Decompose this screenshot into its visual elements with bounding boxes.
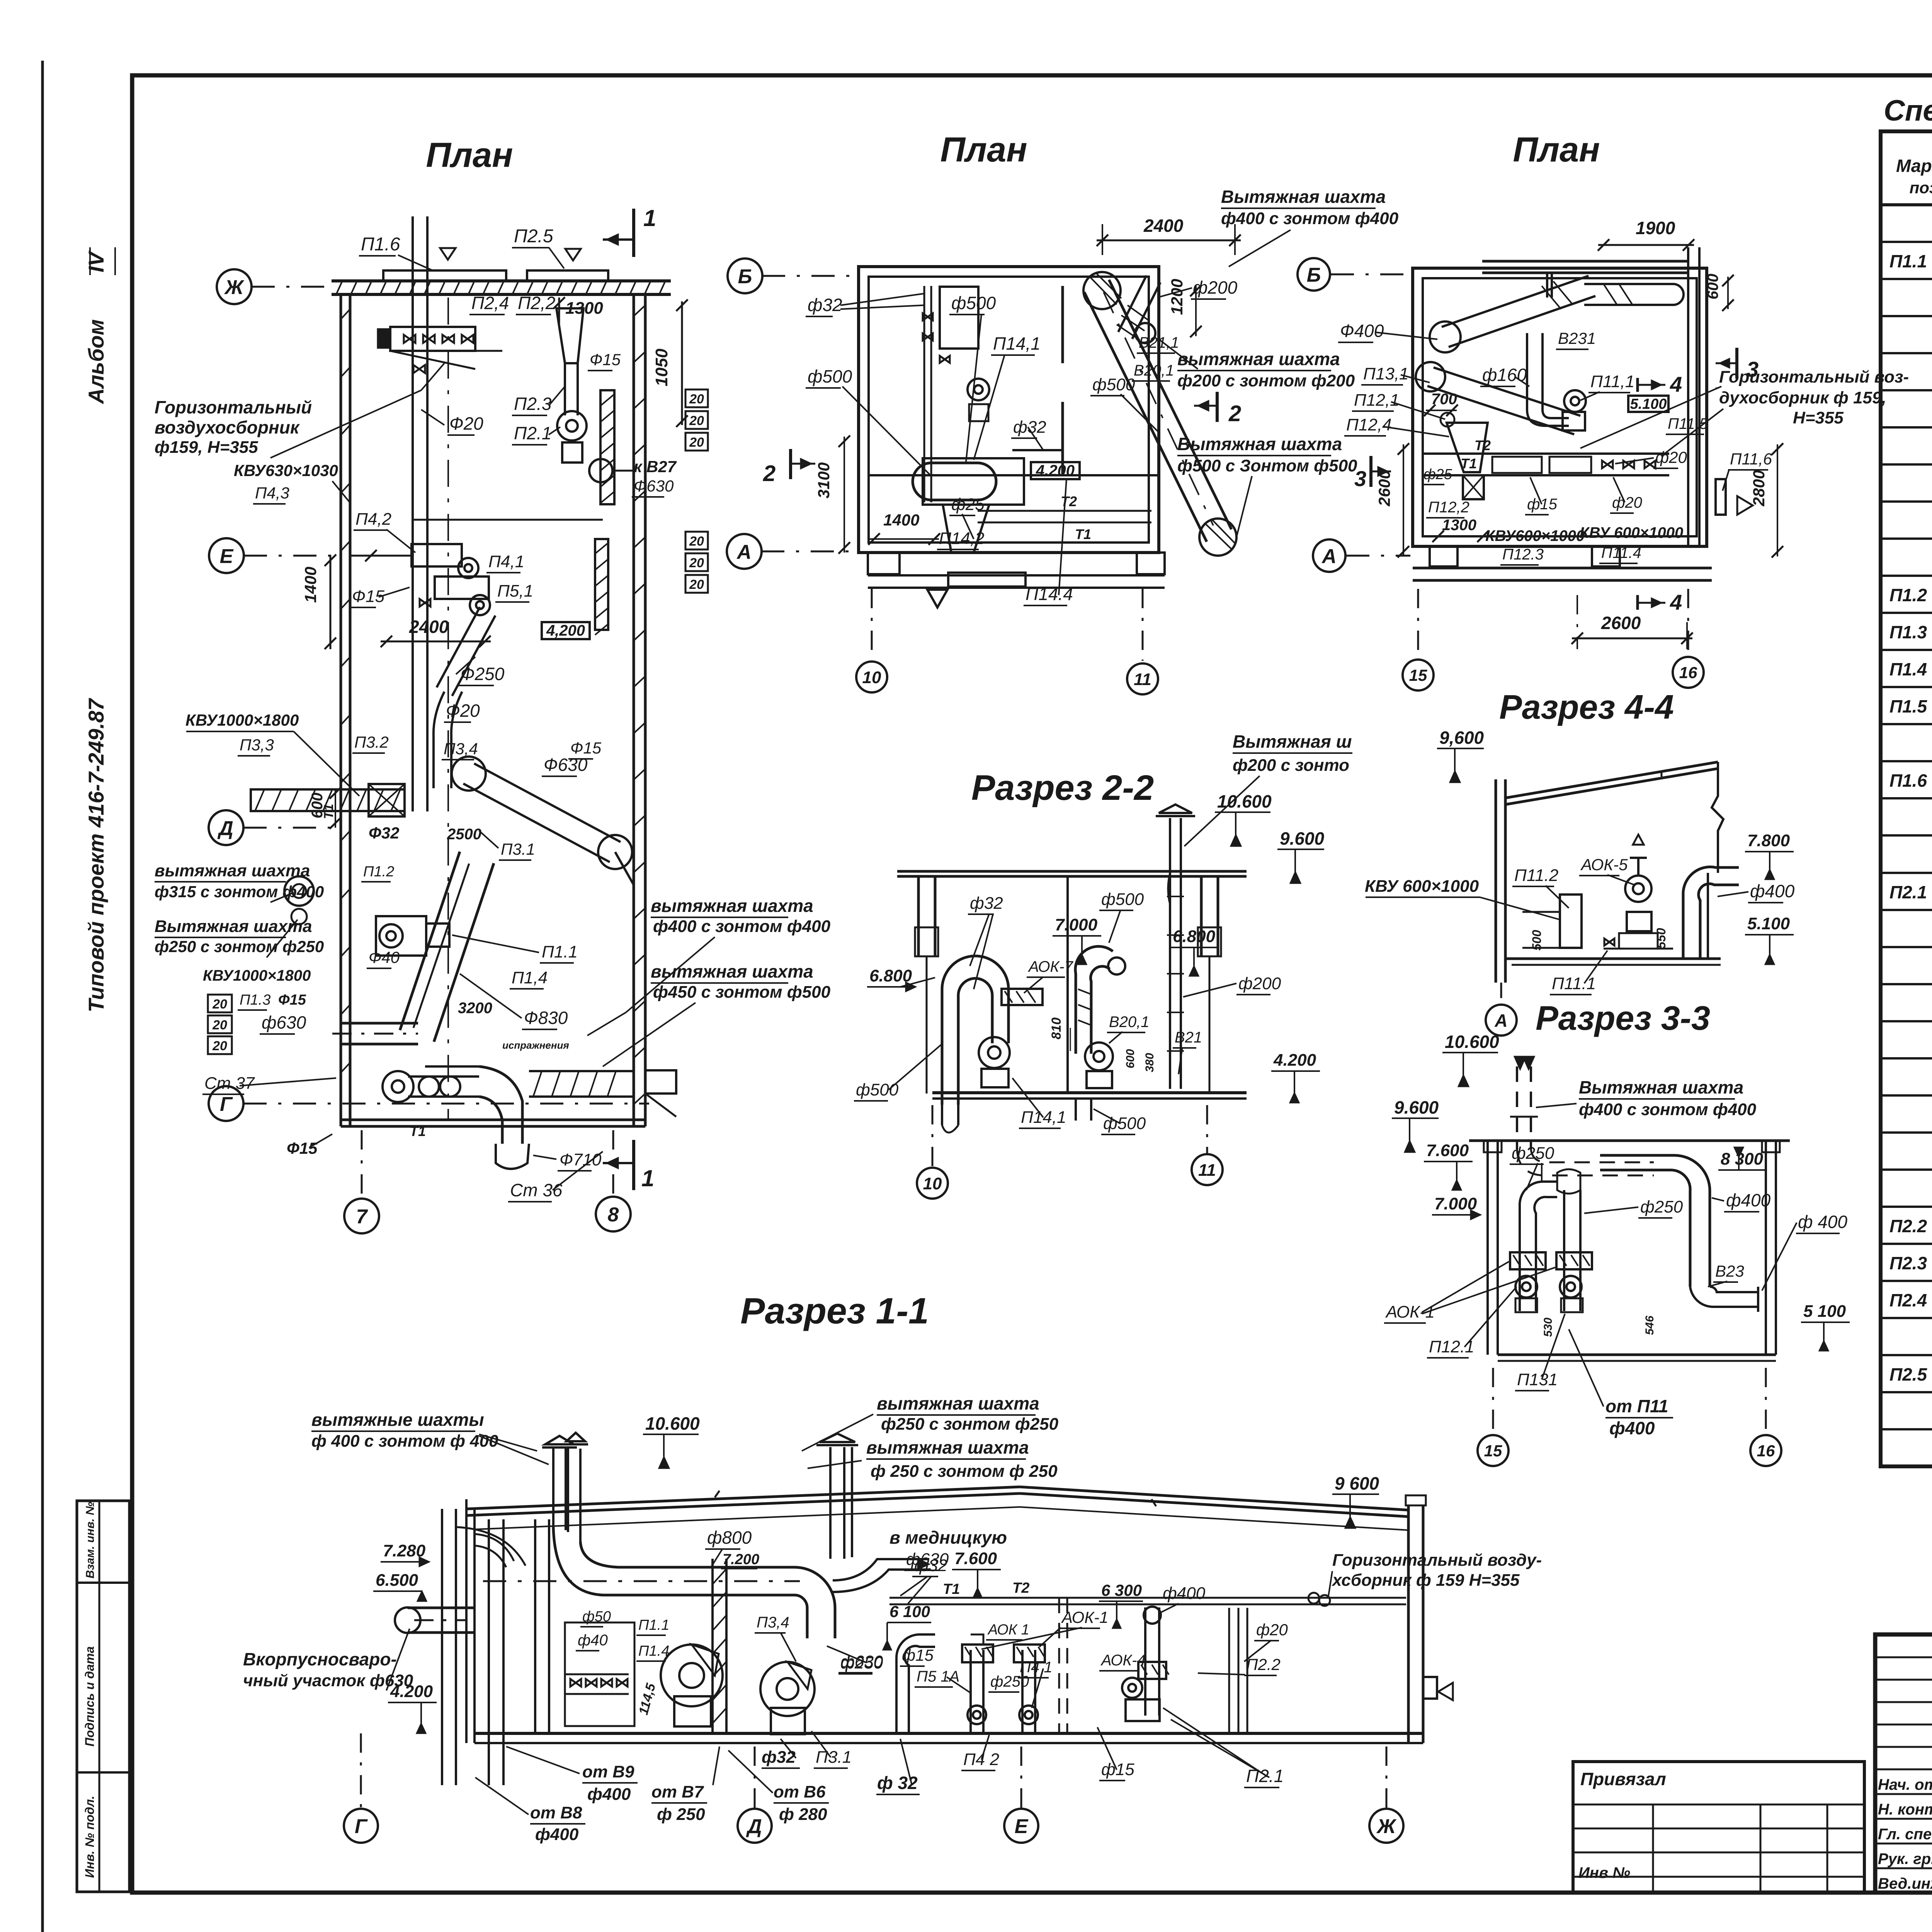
plan2 elbow bottom blob bbox=[1199, 519, 1236, 556]
svg-text:ф450 с зонтом ф500: ф450 с зонтом ф500 bbox=[653, 983, 831, 1002]
plan3 lower diagonal duct bbox=[1427, 386, 1574, 434]
plan1 valve circle V27 bbox=[589, 459, 612, 482]
svg-text:вытяжные шахты: вытяжные шахты bbox=[311, 1410, 484, 1430]
svg-text:ф20: ф20 bbox=[1256, 1621, 1288, 1639]
svg-text:Нач. отд.: Нач. отд. bbox=[1878, 1776, 1932, 1793]
svg-text:духосборник ф 159,: духосборник ф 159, bbox=[1719, 388, 1886, 407]
svg-text:550: 550 bbox=[1654, 928, 1668, 949]
svg-text:9,600: 9,600 bbox=[1439, 728, 1484, 748]
svg-text:Подпись и дата: Подпись и дата bbox=[83, 1646, 97, 1747]
svg-text:1400: 1400 bbox=[301, 567, 320, 603]
svg-text:П1.1: П1.1 bbox=[638, 1617, 669, 1633]
svg-text:Вкорпусносваро-: Вкорпусносваро- bbox=[243, 1649, 397, 1669]
svg-text:Привязал: Привязал bbox=[1580, 1769, 1666, 1789]
svg-text:ф250 с зонтом ф250: ф250 с зонтом ф250 bbox=[155, 937, 324, 956]
svg-text:П1.2: П1.2 bbox=[363, 864, 394, 880]
plan2 bottom outside blocks bbox=[868, 553, 900, 574]
plan3 grid circle A bbox=[1313, 539, 1345, 572]
svg-text:Ф20: Ф20 bbox=[449, 413, 483, 434]
svg-text:П2.5: П2.5 bbox=[514, 226, 553, 247]
svg-text:Д: Д bbox=[217, 817, 233, 840]
plan2 grid circle B bbox=[728, 259, 762, 293]
svg-text:АОК-4: АОК-4 bbox=[1100, 1652, 1146, 1669]
svg-text:П14,1: П14,1 bbox=[993, 333, 1041, 354]
svg-text:П2.3: П2.3 bbox=[514, 394, 552, 414]
razrez44 floor bbox=[1505, 957, 1721, 960]
plan1 roof hatch P2.5 bbox=[527, 270, 608, 281]
spec table header underline bbox=[1881, 203, 1932, 206]
svg-text:Т1: Т1 bbox=[410, 1123, 426, 1139]
svg-text:вытяжная шахта: вытяжная шахта bbox=[1177, 349, 1340, 369]
svg-text:воздухосборник: воздухосборник bbox=[155, 417, 300, 437]
svg-text:План: План bbox=[1513, 131, 1600, 169]
razrez11 unit P5.1A cluster bbox=[969, 1650, 972, 1733]
plan1 center axis line bbox=[447, 298, 449, 1121]
razrez33 ceiling bbox=[1469, 1139, 1790, 1142]
svg-text:4: 4 bbox=[1670, 372, 1682, 396]
svg-text:20: 20 bbox=[212, 1039, 227, 1053]
svg-text:Инв. № подл.: Инв. № подл. bbox=[83, 1796, 97, 1878]
svg-text:6.800: 6.800 bbox=[1173, 927, 1216, 946]
svg-text:П11,1: П11,1 bbox=[1590, 372, 1634, 391]
svg-text:ф400 с зонтом ф400: ф400 с зонтом ф400 bbox=[653, 917, 831, 936]
razrez33 columns bbox=[1486, 1141, 1489, 1355]
svg-text:7.600: 7.600 bbox=[1426, 1141, 1469, 1160]
svg-text:3: 3 bbox=[1747, 357, 1759, 381]
svg-text:1: 1 bbox=[643, 205, 656, 231]
svg-text:П3,3: П3,3 bbox=[240, 736, 274, 754]
plan3 section mark 3 left bbox=[1369, 456, 1372, 487]
svg-text:Ф15: Ф15 bbox=[590, 350, 621, 369]
svg-text:ф200 с зонтом ф200: ф200 с зонтом ф200 bbox=[1177, 371, 1355, 390]
plan3 right door P11.6 bbox=[1716, 479, 1726, 515]
plan3 section mark 4 bottom bbox=[1636, 595, 1639, 610]
razrez22 floor bbox=[932, 1091, 1247, 1094]
plan1 grid axis circle E bbox=[209, 538, 244, 573]
svg-text:530: 530 bbox=[1542, 1318, 1554, 1337]
plan2 bottom deck band bbox=[868, 574, 1165, 577]
razrez11 roof profile bbox=[466, 1487, 1020, 1509]
svg-text:ф315 с зонтом ф400: ф315 с зонтом ф400 bbox=[155, 883, 324, 901]
svg-text:ф400: ф400 bbox=[1163, 1584, 1206, 1603]
circle 11 lower bbox=[1192, 1154, 1223, 1185]
plan1 bottom wall bbox=[341, 1119, 645, 1121]
svg-text:П5 1А: П5 1А bbox=[917, 1668, 959, 1685]
svg-text:2: 2 bbox=[763, 461, 776, 486]
svg-text:ф250: ф250 bbox=[840, 1653, 883, 1672]
svg-text:П4,1: П4,1 bbox=[488, 552, 524, 571]
svg-text:Ф15: Ф15 bbox=[570, 739, 602, 757]
plan1 block with brace bbox=[369, 784, 405, 816]
svg-text:Вытяжная шахта: Вытяжная шахта bbox=[1221, 187, 1386, 207]
svg-text:П1.1: П1.1 bbox=[542, 942, 578, 961]
razrez11 grid circles bottom bbox=[360, 1733, 362, 1809]
razrez22 exhaust stack with cap bbox=[1169, 818, 1171, 1089]
svg-text:3: 3 bbox=[1354, 466, 1366, 491]
svg-text:АОК 1: АОК 1 bbox=[987, 1622, 1029, 1638]
razrez11 right wall bbox=[1407, 1505, 1410, 1743]
plan1 left wall bbox=[340, 294, 342, 1126]
circle E bottom bbox=[1004, 1809, 1038, 1843]
svg-text:20: 20 bbox=[689, 556, 704, 570]
plan2 inner wall bottom strip bbox=[869, 474, 1159, 476]
razrez11 valve row unit1 bbox=[565, 1673, 629, 1675]
svg-text:ф250: ф250 bbox=[1512, 1144, 1554, 1163]
sidebar small table bbox=[77, 1501, 129, 1892]
svg-text:ф32: ф32 bbox=[914, 1556, 947, 1575]
razrez22 fan right bbox=[1085, 1043, 1113, 1070]
razrez44 circle A bbox=[1486, 1005, 1517, 1036]
svg-text:Ст 36: Ст 36 bbox=[510, 1180, 563, 1200]
svg-text:6.500: 6.500 bbox=[376, 1571, 418, 1590]
svg-text:Разрез 1-1: Разрез 1-1 bbox=[740, 1291, 929, 1332]
plan3 grid circle B bbox=[1298, 258, 1330, 291]
svg-text:В23: В23 bbox=[1715, 1262, 1744, 1280]
svg-text:3100: 3100 bbox=[815, 463, 833, 498]
plan1 duct down from funnel bbox=[564, 363, 566, 415]
svg-text:4.200: 4.200 bbox=[1273, 1051, 1316, 1070]
svg-text:Взам. инв. №: Взам. инв. № bbox=[84, 1502, 97, 1578]
razrez33 dashed duct elbow inside bbox=[1517, 1150, 1654, 1175]
svg-text:546: 546 bbox=[1643, 1316, 1656, 1335]
svg-text:16: 16 bbox=[1679, 663, 1697, 682]
plan1 nabla marks bbox=[440, 248, 456, 260]
svg-text:П2,2: П2,2 bbox=[518, 293, 555, 313]
svg-text:ф200: ф200 bbox=[1193, 277, 1238, 298]
svg-text:Ф20: Ф20 bbox=[446, 701, 480, 721]
circle D bottom bbox=[738, 1809, 772, 1843]
svg-text:ф400: ф400 bbox=[1726, 1190, 1771, 1210]
svg-text:IV: IV bbox=[84, 250, 108, 272]
plan1 box 4.200 bbox=[542, 622, 590, 639]
plan2 fan unit oval P14.1 bbox=[913, 463, 996, 500]
svg-text:В20,1: В20,1 bbox=[1109, 1014, 1150, 1031]
plan3 upper diagonal duct bbox=[1449, 296, 1595, 347]
svg-text:6 100: 6 100 bbox=[889, 1602, 930, 1621]
svg-text:В231: В231 bbox=[1558, 329, 1596, 347]
razrez22 left column bbox=[917, 876, 920, 956]
svg-text:Марка: Марка bbox=[1896, 156, 1932, 176]
svg-text:ф500: ф500 bbox=[1092, 375, 1135, 394]
svg-text:П1.5: П1.5 bbox=[1889, 696, 1927, 716]
svg-text:Разрез 3-3: Разрез 3-3 bbox=[1536, 999, 1710, 1037]
razrez11 left duct cluster bbox=[441, 1509, 443, 1785]
svg-text:П14,2: П14,2 bbox=[939, 529, 985, 548]
svg-text:ф 250 с зонтом ф 250: ф 250 с зонтом ф 250 bbox=[871, 1462, 1058, 1481]
svg-text:ф15: ф15 bbox=[902, 1646, 934, 1664]
svg-text:ф400 с зонтом ф400: ф400 с зонтом ф400 bbox=[1579, 1100, 1757, 1119]
svg-text:5.100: 5.100 bbox=[1747, 914, 1790, 933]
svg-text:ф159, Н=355: ф159, Н=355 bbox=[155, 438, 258, 457]
svg-text:вытяжная шахта: вытяжная шахта bbox=[651, 896, 813, 916]
plan2 nabla bottom bbox=[927, 590, 947, 607]
razrez22 left U duct bbox=[942, 956, 1009, 1105]
razrez44 right break bbox=[1712, 762, 1723, 873]
svg-text:План: План bbox=[940, 131, 1027, 169]
plan2 left pipes and valves bbox=[923, 286, 925, 502]
svg-text:В20,1: В20,1 bbox=[1134, 362, 1174, 379]
svg-text:П2.3: П2.3 bbox=[1889, 1253, 1927, 1273]
svg-text:П2.4: П2.4 bbox=[1889, 1290, 1927, 1310]
razrez11 frame around unit1 bbox=[565, 1622, 634, 1726]
svg-text:16: 16 bbox=[1757, 1442, 1775, 1460]
svg-text:ф25: ф25 bbox=[951, 495, 985, 514]
svg-text:вытяжная шахта: вытяжная шахта bbox=[155, 861, 310, 880]
svg-text:7.200: 7.200 bbox=[723, 1551, 759, 1568]
razrez33 fans bottom bbox=[1515, 1276, 1537, 1298]
plan3 bottom deck band bbox=[1413, 567, 1712, 570]
svg-text:114,5: 114,5 bbox=[636, 1681, 658, 1716]
svg-text:Ф400: Ф400 bbox=[1340, 321, 1384, 341]
plan2 small chimney duct F200 bbox=[1132, 282, 1160, 339]
svg-text:КВУ 600×1000: КВУ 600×1000 bbox=[1365, 877, 1479, 896]
svg-text:20: 20 bbox=[689, 534, 704, 549]
svg-text:11: 11 bbox=[1134, 670, 1151, 689]
svg-text:4: 4 bbox=[1670, 590, 1682, 614]
svg-text:1: 1 bbox=[641, 1165, 654, 1191]
svg-text:Альбом: Альбом bbox=[84, 319, 108, 405]
svg-text:10: 10 bbox=[923, 1174, 942, 1193]
svg-text:КВУ630×1030: КВУ630×1030 bbox=[234, 461, 338, 480]
plan2 grid circle A bbox=[727, 534, 762, 569]
svg-text:600: 600 bbox=[1704, 274, 1721, 299]
svg-text:9 600: 9 600 bbox=[1335, 1473, 1379, 1493]
razrez11 left wall bbox=[465, 1499, 468, 1743]
razrez11 T pipes bbox=[889, 1597, 1406, 1599]
svg-text:ф20: ф20 bbox=[1655, 448, 1687, 466]
svg-text:10.600: 10.600 bbox=[1445, 1032, 1499, 1052]
svg-text:к В27: к В27 bbox=[634, 457, 677, 476]
circle 16 upper bbox=[1673, 657, 1704, 688]
plan1 bottom duct horizontal bbox=[425, 1065, 479, 1068]
svg-text:П3.1: П3.1 bbox=[501, 840, 535, 858]
svg-text:КВУ 600×1000: КВУ 600×1000 bbox=[1580, 524, 1683, 541]
svg-text:2400: 2400 bbox=[409, 617, 449, 637]
razrez22 below floor stubs bbox=[941, 1099, 943, 1125]
svg-text:П12,1: П12,1 bbox=[1354, 391, 1400, 410]
razrez33 heater blocks AOK-1 bbox=[1510, 1252, 1546, 1269]
svg-text:Ф40: Ф40 bbox=[369, 948, 400, 966]
svg-text:Ф630: Ф630 bbox=[634, 477, 674, 495]
plan1 inner duct channel bbox=[412, 216, 414, 811]
svg-text:А: А bbox=[1321, 545, 1337, 568]
plan1 hatched duct V27 upper bbox=[600, 390, 614, 504]
plan1 three 20 boxes right lower bbox=[685, 532, 708, 549]
svg-text:П2.1: П2.1 bbox=[514, 423, 551, 443]
sheet outer trim line left bbox=[41, 61, 44, 1932]
razrez11 outside right box bbox=[1423, 1677, 1437, 1699]
svg-text:Б: Б bbox=[738, 265, 752, 288]
svg-text:П3,4: П3,4 bbox=[757, 1614, 789, 1631]
svg-text:Б: Б bbox=[1307, 264, 1321, 286]
svg-text:П13,1: П13,1 bbox=[1363, 364, 1409, 383]
svg-text:20: 20 bbox=[689, 577, 704, 592]
svg-text:П1.4: П1.4 bbox=[638, 1643, 669, 1659]
svg-text:П12.1: П12.1 bbox=[1429, 1337, 1475, 1356]
plan3 room walls bbox=[1413, 268, 1707, 546]
svg-text:П1.2: П1.2 bbox=[1889, 585, 1927, 605]
svg-text:П11,6: П11,6 bbox=[1730, 450, 1772, 468]
circle Zh bottom bbox=[1369, 1809, 1403, 1843]
razrez22 right column bbox=[1200, 876, 1203, 956]
razrez11 stack1 pair bbox=[552, 1449, 554, 1527]
razrez11 elbow down to fan1 bbox=[794, 1567, 835, 1638]
circle 11 upper bbox=[1127, 663, 1158, 694]
svg-text:ф 400: ф 400 bbox=[1798, 1212, 1847, 1232]
svg-text:П2.5: П2.5 bbox=[1889, 1364, 1927, 1384]
svg-text:П2.2: П2.2 bbox=[1889, 1216, 1927, 1236]
svg-text:Гл. спец.: Гл. спец. bbox=[1878, 1826, 1932, 1843]
svg-text:Вед.инж.: Вед.инж. bbox=[1878, 1875, 1932, 1892]
circle G bottom bbox=[344, 1809, 378, 1843]
svg-text:П3,4: П3,4 bbox=[444, 740, 478, 758]
plan1 section mark 1 top bbox=[632, 209, 635, 257]
svg-text:Е: Е bbox=[220, 545, 234, 568]
razrez33 dashdot to circles bbox=[1492, 1368, 1494, 1434]
razrez11 floor bbox=[474, 1732, 1423, 1735]
title block left small rows bbox=[1875, 1656, 1932, 1658]
svg-text:Т2: Т2 bbox=[1475, 437, 1491, 453]
svg-text:ф15: ф15 bbox=[1101, 1760, 1134, 1779]
svg-text:ф400: ф400 bbox=[1750, 881, 1795, 901]
razrez11 unit P2.1 bbox=[1144, 1607, 1146, 1716]
svg-text:КВУ1000×1800: КВУ1000×1800 bbox=[203, 967, 311, 984]
title block signature rows bbox=[1875, 1793, 1932, 1795]
plan1 bottom elbow duct to F710 bbox=[479, 1066, 522, 1144]
svg-text:П2.1: П2.1 bbox=[1889, 882, 1927, 902]
plan2 heater box bbox=[940, 287, 978, 349]
plan1 hatched crossing duct bbox=[251, 789, 405, 811]
svg-text:ф25: ф25 bbox=[1423, 466, 1452, 483]
svg-text:Ф630: Ф630 bbox=[544, 755, 588, 775]
plan3 dashdot to circles 15 16 bbox=[1417, 589, 1419, 658]
svg-text:ф500: ф500 bbox=[856, 1080, 899, 1099]
svg-text:7.800: 7.800 bbox=[1747, 831, 1790, 850]
razrez11 big elbow duct from stack1 bbox=[553, 1527, 794, 1595]
svg-text:Вытяжная шахта: Вытяжная шахта bbox=[155, 917, 312, 936]
plan1 grid axis circle G bbox=[209, 1086, 243, 1121]
svg-text:ф500 с Зонтом ф500: ф500 с Зонтом ф500 bbox=[1177, 456, 1357, 475]
svg-text:20: 20 bbox=[689, 392, 704, 406]
svg-text:7: 7 bbox=[356, 1206, 368, 1228]
svg-text:380: 380 bbox=[1143, 1053, 1156, 1072]
svg-text:П11,5: П11,5 bbox=[1668, 415, 1708, 432]
svg-text:П4 1: П4 1 bbox=[1020, 1659, 1053, 1676]
svg-text:вытяжная шахта: вытяжная шахта bbox=[877, 1393, 1039, 1413]
svg-text:П12,2: П12,2 bbox=[1428, 499, 1469, 516]
svg-text:ф200: ф200 bbox=[1238, 974, 1281, 993]
svg-text:Т2: Т2 bbox=[1012, 1580, 1029, 1596]
svg-text:15: 15 bbox=[1484, 1442, 1502, 1460]
plan1 section mark 1 bottom bbox=[632, 1140, 635, 1190]
svg-text:500: 500 bbox=[1530, 930, 1544, 951]
svg-text:П14,1: П14,1 bbox=[1021, 1108, 1066, 1127]
svg-text:ф400 с зонтом ф400: ф400 с зонтом ф400 bbox=[1221, 209, 1399, 228]
svg-text:испражнения: испражнения bbox=[502, 1039, 569, 1051]
svg-text:Т1: Т1 bbox=[1075, 526, 1091, 542]
svg-text:15: 15 bbox=[1409, 666, 1427, 684]
svg-text:8 300: 8 300 bbox=[1721, 1150, 1764, 1168]
svg-text:А: А bbox=[736, 541, 752, 563]
svg-text:от В6: от В6 bbox=[774, 1782, 826, 1801]
svg-text:П2,4: П2,4 bbox=[471, 293, 509, 313]
svg-text:Ж: Ж bbox=[224, 276, 245, 299]
svg-text:20: 20 bbox=[212, 997, 227, 1012]
plan1 roof hatch P1.6 bbox=[383, 270, 506, 281]
svg-text:Ф15: Ф15 bbox=[278, 992, 306, 1008]
svg-text:1900: 1900 bbox=[1636, 218, 1675, 238]
svg-text:Г: Г bbox=[355, 1815, 368, 1838]
svg-text:ф160: ф160 bbox=[1482, 365, 1527, 385]
svg-text:Т1: Т1 bbox=[1461, 456, 1477, 471]
svg-text:П11.4: П11.4 bbox=[1601, 544, 1641, 561]
plan1 axis line Zh bbox=[252, 286, 332, 288]
svg-text:от В8: от В8 bbox=[530, 1803, 582, 1822]
razrez11 stack2 bbox=[829, 1447, 832, 1559]
svg-text:П3.2: П3.2 bbox=[354, 733, 389, 751]
svg-text:3200: 3200 bbox=[458, 1000, 492, 1017]
razrez22 fan left bbox=[979, 1037, 1010, 1068]
plan2 funnel P14.2 bbox=[943, 505, 989, 553]
svg-text:10.600: 10.600 bbox=[1217, 791, 1272, 811]
svg-text:6 300: 6 300 bbox=[1101, 1581, 1142, 1599]
plan1 funnel P2.3 bbox=[556, 308, 583, 363]
svg-text:4,200: 4,200 bbox=[546, 622, 585, 639]
plan1 heater cluster bbox=[412, 544, 462, 566]
svg-text:5 100: 5 100 bbox=[1803, 1302, 1846, 1321]
svg-text:вытяжная шахта: вытяжная шахта bbox=[651, 961, 813, 981]
svg-text:В21,1: В21,1 bbox=[1139, 334, 1179, 351]
svg-text:1300: 1300 bbox=[1442, 517, 1476, 534]
plan1 bottom fans assembly bbox=[383, 1071, 413, 1102]
razrez11 dashed pair bbox=[1058, 1598, 1060, 1733]
svg-text:11: 11 bbox=[1198, 1161, 1216, 1180]
svg-text:9.600: 9.600 bbox=[1280, 828, 1325, 849]
razrez11 P-duct F250 bbox=[896, 1634, 935, 1733]
plan1 right wall bbox=[633, 294, 635, 1126]
svg-text:Разрез 4-4: Разрез 4-4 bbox=[1499, 688, 1674, 726]
svg-text:2600: 2600 bbox=[1601, 613, 1641, 633]
svg-text:Е: Е bbox=[1015, 1815, 1029, 1838]
svg-text:Т1: Т1 bbox=[943, 1581, 960, 1597]
plan3 funnel P12 bbox=[1447, 423, 1488, 472]
svg-text:Вытяжная шахта: Вытяжная шахта bbox=[1177, 434, 1342, 454]
plan3 section mark 3 right bbox=[1735, 348, 1738, 379]
svg-text:П1.4: П1.4 bbox=[1889, 659, 1927, 679]
plan1 bottom band to right wall bbox=[529, 1070, 634, 1072]
svg-text:20: 20 bbox=[212, 1018, 227, 1032]
svg-text:Вытяжная шахта: Вытяжная шахта bbox=[1579, 1077, 1743, 1097]
svg-text:вытяжная шахта: вытяжная шахта bbox=[866, 1437, 1029, 1458]
svg-text:ф32: ф32 bbox=[808, 295, 842, 315]
svg-text:ф20: ф20 bbox=[1612, 494, 1642, 511]
svg-text:2400: 2400 bbox=[1143, 216, 1184, 236]
svg-text:ф 280: ф 280 bbox=[779, 1805, 827, 1824]
svg-text:П1.6: П1.6 bbox=[1889, 770, 1927, 791]
svg-text:7.000: 7.000 bbox=[1055, 915, 1098, 934]
svg-text:ф250 с зонтом ф250: ф250 с зонтом ф250 bbox=[881, 1415, 1059, 1434]
svg-text:поз: поз bbox=[1910, 179, 1932, 197]
plan1 grid axis circle 8 bbox=[596, 1197, 631, 1231]
razrez33 left F250 duct pair bbox=[1520, 1182, 1557, 1311]
plan1 three 20 boxes right upper bbox=[685, 389, 708, 407]
svg-text:20: 20 bbox=[689, 435, 704, 450]
plan1 duct to lower bbox=[432, 736, 435, 788]
svg-text:А: А bbox=[1494, 1010, 1507, 1031]
razrez44 KVU box bbox=[1560, 895, 1582, 948]
svg-text:1050: 1050 bbox=[652, 349, 671, 386]
svg-text:П3.1: П3.1 bbox=[816, 1748, 852, 1767]
